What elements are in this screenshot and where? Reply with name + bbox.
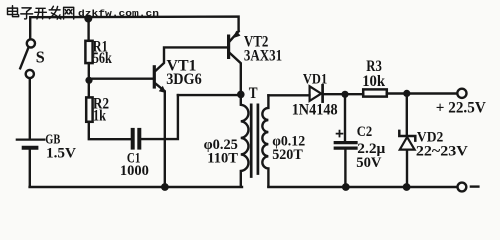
switch S bbox=[20, 39, 35, 78]
wire VD1 cathode to R3 bbox=[324, 93, 363, 95]
svg-text:+ 22.5V: + 22.5V bbox=[436, 99, 487, 116]
wire battery to bottom rail bbox=[29, 150, 31, 186]
svg-text:10k: 10k bbox=[362, 73, 385, 90]
node junction VD2 top bbox=[403, 90, 410, 97]
wire C1 right plate up to feedback node bbox=[141, 95, 178, 139]
node junction R1 top on rail bbox=[84, 15, 92, 23]
wire bottom rail right bbox=[268, 186, 457, 188]
node junction C2 bottom bbox=[342, 183, 350, 191]
header site name CJK 电子开发网 bbox=[8, 6, 74, 19]
capacitor C1 bbox=[133, 130, 140, 148]
node junction R1/R2/base bbox=[85, 77, 92, 84]
terminal - output bbox=[458, 183, 467, 192]
capacitor C2 2.2u bbox=[335, 94, 356, 187]
svg-text:S: S bbox=[36, 48, 45, 67]
zener diode VD2 bbox=[399, 93, 415, 187]
node junction VT2 collector / primary top bbox=[237, 91, 245, 99]
wire node to VT1 base bbox=[89, 77, 153, 79]
transformer T primary winding 110T bbox=[241, 94, 249, 186]
transistor VT2 3AX31 bbox=[229, 31, 241, 95]
wire switch to battery bbox=[29, 78, 31, 138]
wire top rail from switch to VT2 emitter bbox=[30, 17, 238, 39]
resistor R2 bbox=[86, 81, 130, 139]
svg-text:1k: 1k bbox=[93, 108, 106, 125]
svg-text:110T: 110T bbox=[207, 151, 238, 167]
svg-text:1.5V: 1.5V bbox=[46, 146, 76, 162]
svg-text:1000: 1000 bbox=[120, 163, 149, 179]
svg-text:dzkfw.com.cn: dzkfw.com.cn bbox=[78, 8, 160, 19]
wire secondary top to VD1 anode bbox=[268, 94, 309, 96]
resistor R3 bbox=[363, 89, 387, 96]
node junction VD2 bottom bbox=[403, 183, 411, 191]
transformer core bbox=[251, 105, 258, 177]
transformer T secondary winding 520T bbox=[262, 95, 268, 186]
svg-text:C2: C2 bbox=[357, 124, 372, 140]
svg-text:520T: 520T bbox=[272, 147, 303, 163]
diode VD1 1N4148 bbox=[310, 85, 323, 101]
transistor VT1 3DG6 bbox=[154, 47, 227, 187]
minus sign bbox=[471, 185, 479, 187]
svg-text:3AX31: 3AX31 bbox=[244, 48, 282, 65]
svg-text:50V: 50V bbox=[356, 155, 382, 171]
resistor R1 bbox=[85, 17, 92, 79]
node junction C2 top bbox=[341, 91, 348, 98]
battery GB plates bbox=[17, 139, 45, 141]
svg-text:VD1: VD1 bbox=[303, 71, 327, 87]
wire bottom rail left bbox=[30, 186, 242, 188]
svg-text:22~23V: 22~23V bbox=[416, 143, 468, 159]
svg-text:1N4148: 1N4148 bbox=[292, 102, 338, 119]
terminal + output bbox=[457, 89, 466, 98]
wire feedback horizontal to collector node bbox=[178, 94, 241, 96]
wire R3 to + terminal bbox=[387, 92, 457, 94]
svg-text:3DG6: 3DG6 bbox=[166, 71, 202, 88]
svg-text:T: T bbox=[249, 85, 258, 102]
node junction VT1 emitter to bottom rail bbox=[161, 183, 169, 191]
svg-text:56k: 56k bbox=[93, 50, 112, 67]
